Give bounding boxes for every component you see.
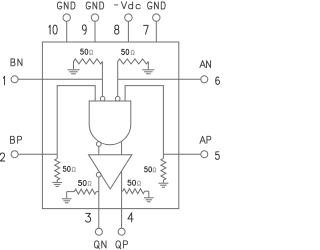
wire BP route to gate [57,86,95,155]
label R3 value 50 ohm [63,166,70,171]
wire pin 7 stub [155,21,157,42]
label pin number 4 [128,213,133,222]
label R2 ohm symbol [131,50,134,54]
wire R5 leads [67,191,75,193]
wire gate inverted output to buffer [98,146,100,154]
pin 3 terminal [95,228,102,235]
input bubble (BN inverting) [100,96,105,101]
wire AP route to gate [125,86,163,155]
pin 10 terminal [63,14,70,21]
pin 4 terminal [118,228,125,235]
resistor R1 50ohm (BN termination) [74,59,103,64]
pin 9 terminal [91,14,98,21]
output bubble (QN inverting tap) [96,172,101,177]
pin 2 terminal [11,151,18,158]
label -Vdc pin8 [115,2,141,9]
label AP [200,136,211,143]
label BP [11,136,22,143]
label pin number 1 [3,76,4,85]
wire QN output [98,177,100,228]
resistor R2 50ohm (AN termination) [118,59,149,64]
ground (R4) [158,180,168,187]
wire R6 leads [122,190,123,192]
ground (R2) [142,61,154,73]
label R5 ohm symbol [88,181,91,185]
pin 5 terminal [201,151,208,158]
wire pin 8 stub [127,21,129,42]
label GND pin9 [86,2,104,9]
resistor R4 50ohm (AP termination) [161,159,166,181]
label pin number 7 [144,25,149,34]
wire AN input [118,78,201,80]
pin 6 terminal [201,76,208,83]
AND gate U1 body [89,101,131,145]
wire BP input [18,153,57,155]
resistor R3 50ohm (BP termination) [55,159,60,181]
label BN [11,59,22,66]
input bubble (AN inverting) [115,96,120,101]
label R6 value 50 ohm [128,180,136,185]
label QP [116,241,128,249]
wire R4 top lead [162,154,164,158]
pin 7 terminal [153,14,160,21]
label pin number 8 [115,25,119,34]
resistor R5 50ohm (QN pulldown) [74,189,96,194]
label QN [94,241,106,249]
label R6 ohm symbol [137,181,140,185]
wire QP output [121,171,123,228]
wire R3 top lead [56,154,58,158]
ground (R5) [62,192,72,203]
label pin number 2 [0,153,4,161]
label R2 value 50 ohm [122,49,129,54]
buffer amplifier U2 (triangle) [89,155,132,189]
label R1 value 50 ohm [81,49,88,54]
outer box (device outline) [42,42,178,209]
label R1 ohm symbol [90,50,93,54]
label AN [200,61,211,68]
label R3 ohm symbol [72,167,75,171]
ground (R1) [68,61,80,73]
wire BN input [18,78,102,80]
wire AP input [163,153,200,155]
label pin number 10 [49,25,57,34]
label pin number 3 [86,213,91,222]
label R4 ohm symbol [153,168,156,172]
ground (R6) [144,191,154,202]
wire R1 to BN node [101,61,103,96]
label R4 value 50 ohm [145,167,152,172]
output bubble (gate inverted output) [96,142,101,147]
label R5 value 50 ohm [78,180,86,185]
pin 8 terminal [125,14,132,21]
wire gate true output to buffer [121,141,123,154]
label pin number 6 [216,77,220,84]
label GND pin10 [57,2,75,9]
label GND pin7 [148,2,166,9]
label pin number 5 [215,152,219,160]
label pin number 9 [82,25,86,34]
wire R2 to AN node [117,61,119,96]
ground (R3) [52,180,62,186]
pin 1 terminal [11,76,18,83]
resistor R6 50ohm (QP pulldown) [123,189,145,194]
wire pin 10 stub [66,21,68,42]
wire pin 9 stub [94,21,96,42]
